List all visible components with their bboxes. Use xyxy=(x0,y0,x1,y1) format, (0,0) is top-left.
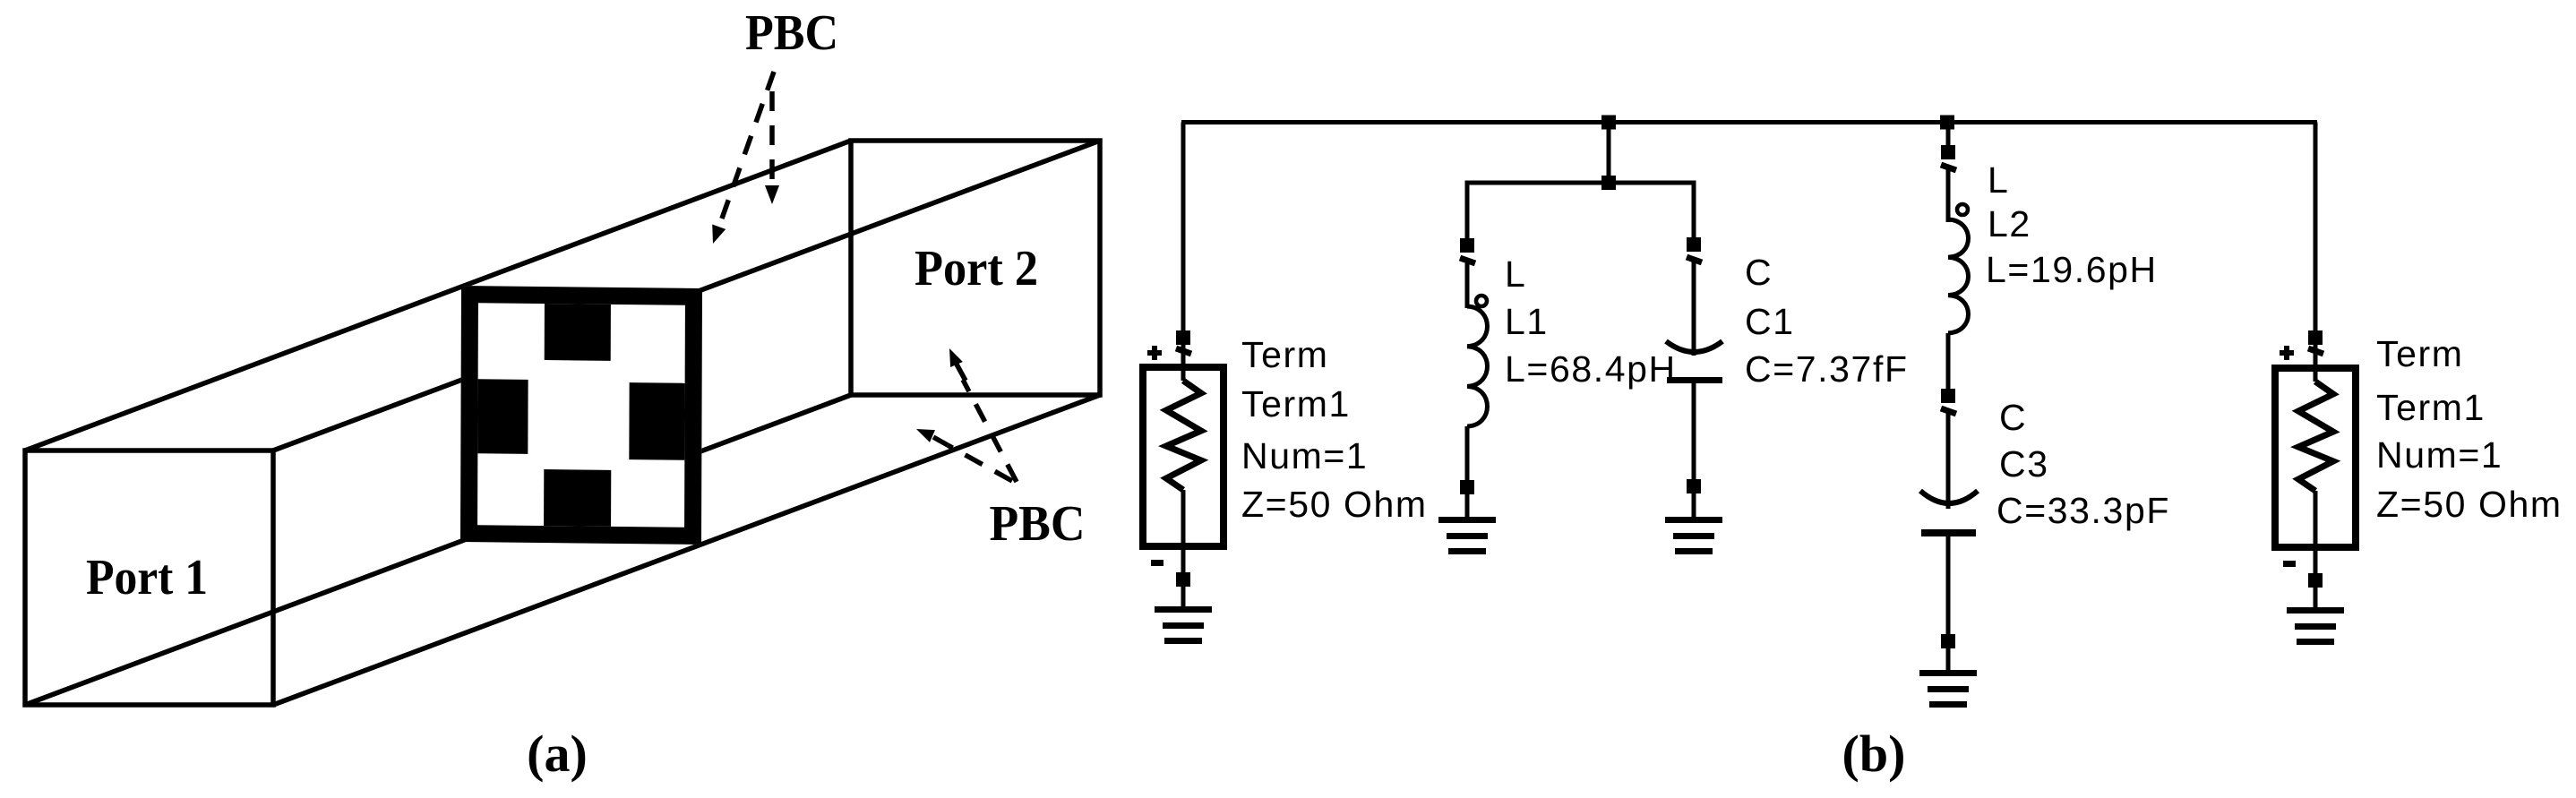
svg-text:L=19.6pH: L=19.6pH xyxy=(1986,249,2158,290)
svg-text:L1: L1 xyxy=(1505,301,1549,342)
svg-text:C=7.37fF: C=7.37fF xyxy=(1745,348,1909,390)
svg-text:Z=50 Ohm: Z=50 Ohm xyxy=(1241,484,1428,525)
svg-text:C3: C3 xyxy=(1999,443,2049,485)
svg-text:PBC: PBC xyxy=(990,496,1086,552)
svg-text:Term1: Term1 xyxy=(1241,383,1351,425)
svg-text:Port 2: Port 2 xyxy=(914,241,1038,296)
svg-text:Term1: Term1 xyxy=(2376,387,2486,428)
svg-text:C: C xyxy=(1999,397,2027,438)
svg-text:L: L xyxy=(1505,253,1526,295)
svg-text:Num=1: Num=1 xyxy=(1241,435,1368,476)
svg-text:L=68.4pH: L=68.4pH xyxy=(1505,348,1677,390)
svg-text:(a): (a) xyxy=(527,725,588,783)
svg-text:C1: C1 xyxy=(1745,301,1795,342)
svg-text:C=33.3pF: C=33.3pF xyxy=(1996,490,2170,531)
svg-text:L2: L2 xyxy=(1988,203,2031,245)
svg-text:L: L xyxy=(1988,159,2009,201)
svg-text:Port 1: Port 1 xyxy=(86,550,208,605)
svg-text:(b): (b) xyxy=(1842,725,1906,783)
svg-text:Num=1: Num=1 xyxy=(2376,434,2503,476)
svg-text:Term: Term xyxy=(2376,333,2464,374)
svg-text:C: C xyxy=(1745,252,1773,293)
svg-text:Term: Term xyxy=(1241,334,1329,375)
svg-text:PBC: PBC xyxy=(745,5,838,61)
svg-text:Z=50 Ohm: Z=50 Ohm xyxy=(2376,484,2563,525)
